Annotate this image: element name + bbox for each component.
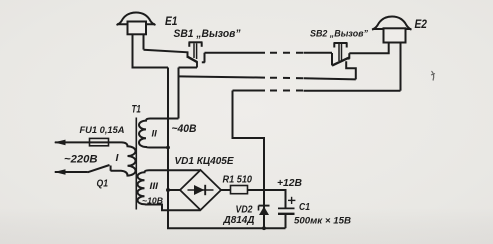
svg-text:SB2 „Вызов”: SB2 „Вызов” — [310, 29, 368, 40]
svg-text:Д814Д: Д814Д — [223, 215, 256, 226]
svg-text:+12В: +12В — [277, 177, 302, 189]
svg-text:SB1 „Вызов”: SB1 „Вызов” — [174, 28, 242, 40]
svg-text:III: III — [150, 181, 159, 192]
svg-text:E2: E2 — [415, 17, 428, 31]
svg-text:C1: C1 — [299, 202, 310, 213]
svg-text:FU1 0,15A: FU1 0,15A — [80, 125, 125, 136]
svg-text:VD1 КЦ405Е: VD1 КЦ405Е — [175, 156, 234, 167]
svg-text:~220В: ~220В — [64, 154, 98, 166]
svg-text:II: II — [152, 129, 158, 140]
svg-text:500мк × 15В: 500мк × 15В — [294, 216, 351, 227]
svg-text:Q1: Q1 — [97, 179, 109, 190]
svg-text:~10В: ~10В — [142, 197, 163, 206]
svg-text:E1: E1 — [165, 14, 178, 28]
svg-text:T1: T1 — [132, 104, 141, 116]
svg-text:~40В: ~40В — [172, 123, 197, 135]
svg-text:R1 510: R1 510 — [223, 175, 253, 186]
